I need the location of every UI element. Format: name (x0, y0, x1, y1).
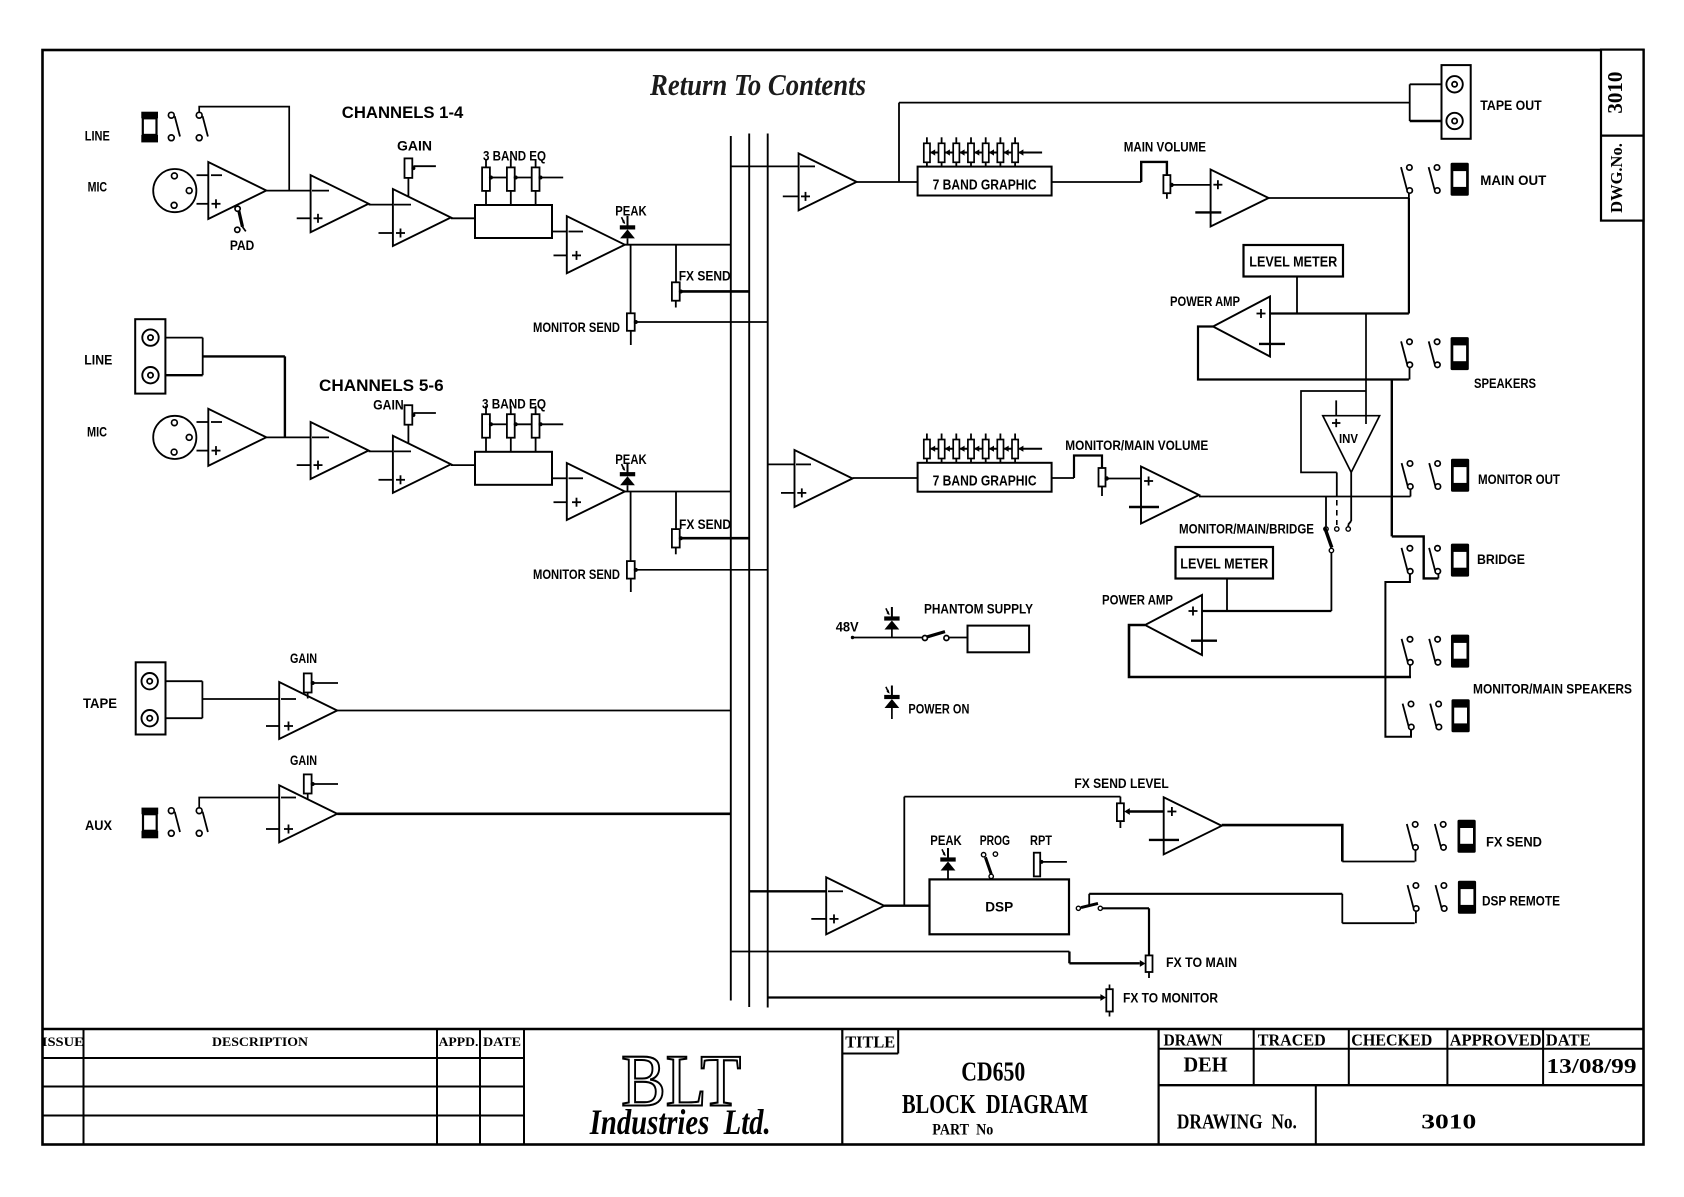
svg-text:MONITOR SEND: MONITOR SEND (533, 320, 620, 335)
svg-text:TAPE: TAPE (83, 696, 117, 711)
svg-text:FX SEND: FX SEND (679, 517, 731, 532)
svg-text:DRAWING No.: DRAWING No. (1177, 1110, 1297, 1134)
svg-text:PHANTOM SUPPLY: PHANTOM SUPPLY (924, 602, 1033, 617)
svg-text:GAIN: GAIN (290, 651, 317, 666)
svg-text:BRIDGE: BRIDGE (1477, 552, 1525, 567)
svg-text:DEH: DEH (1184, 1053, 1228, 1077)
svg-text:7 BAND GRAPHIC: 7 BAND GRAPHIC (933, 177, 1037, 194)
svg-text:FX TO MONITOR: FX TO MONITOR (1123, 990, 1218, 1005)
svg-text:DSP: DSP (985, 899, 1013, 915)
svg-text:DATE: DATE (483, 1034, 521, 1049)
svg-text:POWER ON: POWER ON (908, 701, 969, 716)
svg-text:Industries Ltd.: Industries Ltd. (589, 1102, 771, 1142)
svg-text:MIC: MIC (88, 179, 108, 194)
svg-text:ISSUE: ISSUE (42, 1034, 84, 1049)
svg-text:GAIN: GAIN (397, 139, 432, 154)
svg-text:TITLE: TITLE (845, 1033, 895, 1052)
svg-text:MONITOR/MAIN VOLUME: MONITOR/MAIN VOLUME (1065, 438, 1208, 453)
svg-text:7 BAND GRAPHIC: 7 BAND GRAPHIC (933, 473, 1037, 490)
svg-text:AUX: AUX (85, 818, 112, 833)
svg-text:RPT: RPT (1030, 833, 1053, 848)
svg-text:FX SEND: FX SEND (679, 268, 731, 283)
svg-text:13/08/99: 13/08/99 (1547, 1054, 1637, 1078)
svg-text:CHECKED: CHECKED (1351, 1030, 1432, 1049)
svg-text:DWG.No.: DWG.No. (1607, 143, 1626, 213)
svg-text:APPROVED: APPROVED (1450, 1030, 1542, 1049)
svg-text:TAPE OUT: TAPE OUT (1480, 98, 1542, 113)
svg-text:GAIN: GAIN (373, 397, 404, 412)
svg-text:TRACED: TRACED (1258, 1030, 1326, 1049)
svg-text:3010: 3010 (1603, 72, 1627, 114)
svg-text:GAIN: GAIN (290, 753, 317, 768)
svg-text:POWER AMP: POWER AMP (1102, 593, 1173, 608)
svg-text:DATE: DATE (1546, 1030, 1591, 1049)
svg-text:DESCRIPTION: DESCRIPTION (212, 1034, 309, 1049)
svg-text:CHANNELS 1-4: CHANNELS 1-4 (342, 104, 464, 122)
svg-text:3010: 3010 (1421, 1110, 1476, 1134)
svg-text:Return To Contents: Return To Contents (649, 67, 866, 102)
svg-text:MONITOR/MAIN SPEAKERS: MONITOR/MAIN SPEAKERS (1473, 682, 1632, 697)
svg-text:DSP REMOTE: DSP REMOTE (1482, 894, 1560, 909)
svg-text:LEVEL METER: LEVEL METER (1180, 556, 1268, 573)
svg-text:MONITOR SEND: MONITOR SEND (533, 567, 620, 582)
svg-text:DRAWN: DRAWN (1164, 1030, 1224, 1049)
svg-text:PROG: PROG (980, 833, 1010, 848)
svg-text:3 BAND EQ: 3 BAND EQ (483, 149, 546, 164)
svg-text:MIC: MIC (87, 425, 107, 440)
svg-text:POWER AMP: POWER AMP (1170, 294, 1240, 309)
svg-text:MAIN VOLUME: MAIN VOLUME (1124, 139, 1206, 154)
svg-text:BLOCK DIAGRAM: BLOCK DIAGRAM (902, 1089, 1088, 1119)
svg-text:FX TO MAIN: FX TO MAIN (1166, 955, 1237, 970)
svg-text:APPD.: APPD. (439, 1034, 479, 1049)
svg-text:LEVEL METER: LEVEL METER (1249, 254, 1337, 271)
svg-text:MONITOR OUT: MONITOR OUT (1478, 472, 1561, 487)
svg-text:3 BAND EQ: 3 BAND EQ (482, 397, 546, 412)
svg-text:SPEAKERS: SPEAKERS (1474, 376, 1536, 391)
svg-text:MONITOR/MAIN/BRIDGE: MONITOR/MAIN/BRIDGE (1179, 522, 1314, 537)
svg-text:FX SEND LEVEL: FX SEND LEVEL (1074, 776, 1168, 791)
svg-text:PEAK: PEAK (930, 833, 962, 848)
svg-text:FX SEND: FX SEND (1486, 835, 1542, 850)
svg-text:INV: INV (1339, 432, 1359, 446)
svg-text:PEAK: PEAK (615, 203, 647, 218)
svg-text:MAIN OUT: MAIN OUT (1480, 173, 1547, 188)
svg-text:PART No: PART No (932, 1122, 993, 1139)
svg-text:LINE: LINE (84, 352, 112, 367)
svg-text:PEAK: PEAK (615, 452, 647, 467)
svg-text:LINE: LINE (85, 129, 110, 144)
svg-text:CD650: CD650 (961, 1057, 1025, 1087)
svg-text:CHANNELS 5-6: CHANNELS 5-6 (319, 377, 444, 395)
svg-text:48V: 48V (836, 619, 859, 634)
svg-text:PAD: PAD (230, 238, 255, 253)
